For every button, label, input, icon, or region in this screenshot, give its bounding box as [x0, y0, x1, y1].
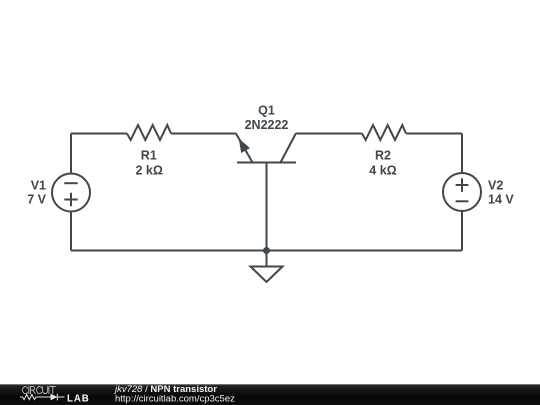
label V2 value 14 V	[488, 193, 514, 207]
resistor R2	[362, 125, 406, 140]
label R1 name	[141, 149, 157, 163]
svg-text:7 V: 7 V	[27, 193, 46, 207]
svg-text:http://circuitlab.com/cp3c5ez: http://circuitlab.com/cp3c5ez	[115, 394, 235, 405]
resistor R1	[127, 125, 171, 140]
label V1 name	[31, 179, 46, 193]
wire R2 to V2	[406, 133, 462, 135]
svg-text:Q1: Q1	[258, 104, 275, 118]
label V1 value 7 V	[27, 193, 46, 207]
svg-text:2N2222: 2N2222	[245, 118, 289, 132]
wire Q1 collector to R2	[296, 133, 362, 135]
voltage source V2	[443, 173, 481, 211]
wire right vertical bottom	[461, 211, 463, 251]
transistor Q1 base bar	[237, 162, 296, 164]
label R2 value 4 kOhm	[369, 164, 396, 178]
ground	[251, 251, 283, 283]
label R1 value 2 kOhm	[135, 164, 162, 178]
voltage source V1	[52, 174, 90, 212]
transistor Q1 emitter arrow	[239, 138, 250, 153]
wire Q1 base to ground node	[266, 163, 268, 251]
svg-text:LAB: LAB	[67, 393, 90, 404]
junction node dot	[263, 247, 270, 254]
svg-text:V2: V2	[488, 179, 503, 193]
svg-text:R1: R1	[141, 149, 157, 163]
footer bar	[0, 384, 540, 405]
svg-text:R2: R2	[375, 149, 391, 163]
logo resistor-diode wire	[20, 394, 65, 401]
svg-text:V1: V1	[31, 179, 46, 193]
wire left vertical top	[70, 134, 72, 174]
wire R1 to Q1 emitter	[171, 133, 236, 135]
wire bottom	[71, 250, 462, 252]
wire left vertical bottom	[70, 212, 72, 251]
logo CIRCUIT wordmark	[23, 387, 56, 394]
label Q1 value 2N2222	[245, 118, 289, 132]
logo LAB wordmark	[67, 393, 90, 404]
svg-text:14 V: 14 V	[488, 193, 514, 207]
svg-text:4 kΩ: 4 kΩ	[369, 164, 396, 178]
label V2 name	[488, 179, 503, 193]
footer url line	[115, 394, 235, 405]
wire right vertical top	[461, 134, 463, 174]
wire top-left (V1 to R1)	[71, 133, 127, 135]
transistor Q1 collector lead	[281, 134, 296, 163]
label R2 name	[375, 149, 391, 163]
footer author/title line	[113, 384, 217, 395]
svg-text:2 kΩ: 2 kΩ	[135, 164, 162, 178]
label Q1 name	[258, 104, 275, 118]
transistor Q1 emitter lead	[236, 134, 253, 163]
